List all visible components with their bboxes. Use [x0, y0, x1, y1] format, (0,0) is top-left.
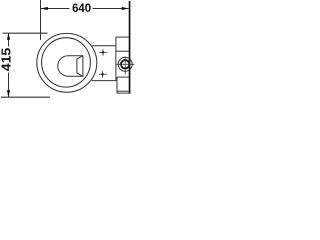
technical plan drawing of wall-mounted toilet [0, 0, 144, 110]
extension line top of 415 [3, 32, 48, 34]
outlet box top edge [117, 76, 129, 78]
sump slant bottom [77, 73, 83, 76]
sump slant top [77, 56, 83, 59]
dimension 415: line lower segment [8, 73, 10, 98]
extension line left of 640 [40, 0, 42, 40]
wall line [129, 1, 131, 94]
tank block inner line [116, 50, 129, 52]
fixing hole bottom: diamond [101, 73, 104, 76]
supply connector outer circle [118, 57, 132, 71]
sump back wall vertical [76, 59, 78, 73]
fixing hole top: diamond [101, 51, 104, 54]
supply connector inner circle [121, 60, 129, 68]
fixing hole top: centerlines [102, 49, 104, 56]
bowl outer rim [37, 33, 97, 92]
bowl opening (stadium shape) [58, 56, 83, 76]
fixing hole bottom: centerlines [102, 71, 104, 78]
supply connector crosshair vertical [124, 56, 126, 74]
floor reference line bottom of 415 [1, 96, 50, 98]
dimension 640: line right segment [93, 8, 129, 10]
outlet box bottom edge [117, 92, 130, 94]
tank block top edge [116, 36, 129, 38]
svg-text:640: 640 [72, 1, 91, 15]
outlet box left edge [116, 77, 118, 93]
supply connector crosshair horizontal [116, 63, 134, 65]
body top line to wall [92, 45, 116, 47]
dimension 640: right arrowhead [122, 7, 129, 10]
tank block left edge [115, 37, 117, 81]
dimension 415: line upper segment [8, 33, 10, 47]
dimension 640: left arrowhead [41, 7, 48, 10]
dimension 640: line left segment [41, 8, 70, 10]
body bottom line to wall [92, 80, 116, 82]
outlet box inner bottom line [117, 90, 128, 92]
svg-text:415: 415 [0, 48, 14, 72]
dimension 415: top arrowhead [7, 33, 10, 40]
dimension 415: bottom arrowhead [7, 90, 10, 97]
bowl inner rim [42, 38, 91, 87]
